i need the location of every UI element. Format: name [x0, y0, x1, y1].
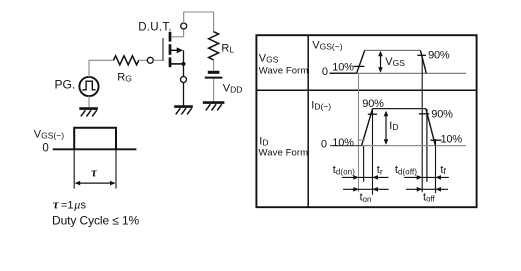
label td(off)	[395, 164, 418, 176]
ID rising edge	[362, 109, 373, 146]
transistor D.U.T. (P-channel MOSFET)	[163, 32, 184, 67]
label ID (amplitude)	[389, 120, 398, 132]
svg-text:10%: 10%	[441, 133, 463, 145]
VGS falling edge	[420, 50, 426, 73]
guide line g2 (ID rise start)	[363, 145, 365, 182]
guide line g4 (VGS 90% fall)	[421, 55, 423, 192]
ID plateau	[373, 108, 426, 110]
guide line g1 (VGS 10% rise)	[358, 74, 360, 192]
ID falling edge	[426, 109, 436, 146]
svg-text:ID: ID	[389, 120, 398, 132]
VGS amplitude arrow	[378, 51, 383, 73]
svg-text:ID: ID	[259, 135, 268, 147]
svg-text:0: 0	[322, 66, 328, 78]
label ton	[360, 192, 372, 204]
svg-text:VGS(−): VGS(−)	[312, 39, 342, 51]
label VGS(-) input	[34, 128, 64, 140]
label 10% (ID fall)	[441, 133, 463, 145]
svg-text:RG: RG	[117, 72, 132, 84]
input pulse waveform	[74, 128, 116, 150]
label 0 (VGS axis)	[322, 66, 328, 78]
note duty cycle	[52, 214, 140, 228]
svg-text:RL: RL	[221, 43, 234, 55]
svg-text:10%: 10%	[332, 137, 354, 149]
ton measure arrows	[343, 187, 389, 192]
svg-text:10%: 10%	[332, 61, 354, 73]
ID 90% fall tick	[419, 113, 430, 115]
td(on)/tr measure arrows	[342, 175, 389, 180]
label RL	[221, 43, 234, 55]
label ID(-) waveform	[311, 100, 331, 112]
label 10% (VGS rise)	[332, 61, 354, 73]
resistor RG	[114, 56, 139, 65]
row label ID Wave Form	[259, 135, 309, 158]
resistor RL	[209, 32, 219, 60]
svg-text:90%: 90%	[362, 98, 384, 110]
label VGS(-) waveform	[312, 39, 342, 51]
svg-text:0: 0	[42, 142, 48, 154]
svg-text:VDD: VDD	[223, 82, 243, 94]
pulse width extension lines	[74, 150, 116, 189]
label tau	[91, 165, 97, 179]
wire drain node to RL top rail	[183, 12, 214, 33]
terminal circle (source probe)	[181, 77, 187, 83]
wire drain tap	[171, 29, 184, 38]
svg-text:1: 1	[67, 200, 73, 212]
wire PG to ground	[88, 96, 90, 108]
guide line g3 (ID 90% rise)	[372, 109, 374, 195]
svg-text:Duty Cycle ≤ 1%: Duty Cycle ≤ 1%	[52, 214, 140, 228]
svg-text:tf: tf	[440, 164, 446, 176]
ID 90% rise tick	[368, 113, 377, 115]
battery VDD	[205, 72, 223, 77]
label VDD	[223, 82, 243, 94]
waveform table frame	[256, 35, 476, 207]
svg-text:τ: τ	[91, 165, 97, 179]
svg-text:D.U.T.: D.U.T.	[138, 21, 172, 33]
svg-text:tr: tr	[377, 164, 383, 176]
svg-text:Wave Form: Wave Form	[259, 148, 309, 159]
wire body tap to source junction	[183, 50, 185, 64]
svg-text:VGS: VGS	[259, 53, 279, 65]
label tr	[377, 164, 383, 176]
note tau = 1 us	[53, 198, 87, 212]
guide line g5 (ID 90% fall)	[426, 109, 428, 182]
label 10% (ID axis)	[332, 137, 354, 149]
svg-text:PG.: PG.	[55, 78, 76, 92]
ground (source)	[174, 107, 193, 115]
wire PG to RG	[89, 60, 114, 77]
label D.U.T.	[138, 21, 172, 33]
svg-text:τ: τ	[53, 198, 59, 212]
svg-text:ID(−): ID(−)	[311, 100, 331, 112]
ID 10% fall tick	[430, 139, 441, 141]
VGS rising edge	[357, 50, 365, 73]
svg-text:90%: 90%	[428, 49, 450, 61]
wire source to terminal	[183, 64, 185, 77]
wire RL to VDD battery	[213, 60, 215, 71]
svg-text:Wave Form: Wave Form	[259, 66, 309, 77]
ID 10% rise tick	[357, 139, 364, 141]
label 90% (ID fall)	[431, 109, 453, 121]
svg-text:s: s	[81, 200, 87, 212]
ground (PG return)	[79, 109, 98, 117]
label PG.	[55, 78, 76, 92]
ID zero baseline	[330, 145, 466, 147]
label VGS (amplitude)	[385, 56, 405, 68]
row label VGS Wave Form	[259, 53, 309, 77]
svg-text:0: 0	[321, 138, 327, 150]
VGS plateau	[365, 49, 421, 51]
terminal circle (drain probe)	[181, 23, 187, 29]
wire gate terminal to gate	[153, 59, 163, 61]
label toff	[423, 191, 435, 203]
label 0 (input axis)	[42, 142, 48, 154]
tau width arrow	[75, 181, 116, 186]
svg-text:90%: 90%	[431, 109, 453, 121]
wire battery to ground	[213, 79, 215, 102]
label 90% (ID rise)	[362, 98, 384, 110]
terminal circle (gate probe)	[147, 57, 153, 63]
label 90% (VGS fall)	[428, 49, 450, 61]
pulse generator PG	[79, 77, 98, 96]
svg-text:=: =	[61, 200, 67, 212]
label 0 (ID axis)	[321, 138, 327, 150]
svg-text:VGS(−): VGS(−)	[34, 128, 64, 140]
node (source junction dot)	[182, 62, 186, 66]
VGS zero baseline	[330, 72, 467, 74]
svg-text:VGS: VGS	[385, 56, 405, 68]
wire RG to gate terminal	[139, 59, 148, 61]
td(off)/tf measure arrows	[404, 175, 449, 180]
ground (VDD return)	[203, 103, 225, 111]
label tf	[440, 164, 446, 176]
svg-text:μ: μ	[73, 198, 80, 212]
VGS 90% tick	[417, 54, 426, 56]
guide line g6 (ID 10% fall)	[435, 139, 437, 193]
label td(on)	[333, 164, 355, 176]
toff measure arrows	[406, 187, 448, 192]
wire source terminal to ground	[183, 83, 185, 106]
VGS 10% tick	[354, 65, 365, 67]
label RG	[117, 72, 132, 84]
input pulse baseline	[53, 148, 137, 150]
ID amplitude arrow	[384, 111, 389, 145]
